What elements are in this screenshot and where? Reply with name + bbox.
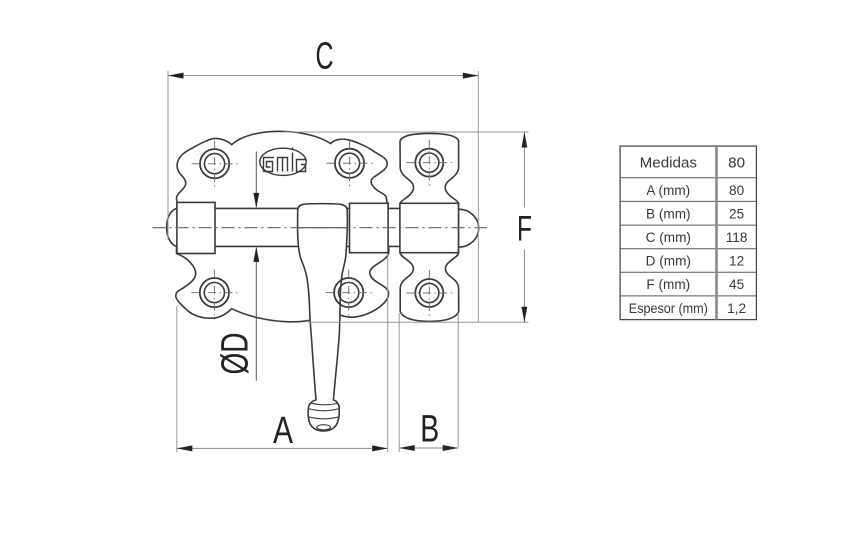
dimension C line: [168, 75, 478, 77]
svg-text:F: F: [517, 209, 532, 248]
svg-text:B: B: [420, 409, 439, 451]
bolt left cap: [167, 208, 178, 246]
handle: [298, 204, 348, 431]
svg-text:80: 80: [729, 183, 745, 198]
screw hole BR: [334, 278, 363, 307]
svg-text:D (mm): D (mm): [646, 254, 691, 269]
svg-text:Espesor (mm): Espesor (mm): [629, 301, 708, 316]
dimension B extension lines: [398, 313, 400, 452]
measurements table: [620, 146, 756, 320]
keeper hole top: [415, 149, 443, 177]
bolt right cap: [459, 209, 479, 247]
svg-text:ØD: ØD: [215, 333, 257, 375]
svg-text:80: 80: [728, 154, 745, 171]
bolt axis centerline: [153, 227, 488, 229]
keeper plate (right): [400, 133, 459, 321]
dimension A line: [177, 447, 388, 449]
centerline segment across handle: [298, 227, 347, 229]
screw hole TR: [335, 149, 364, 178]
screw hole TL: [200, 149, 229, 178]
table grid: [620, 146, 756, 320]
dimension B line: [399, 447, 458, 449]
dimension C extension lines: [167, 71, 169, 240]
screw hole BL: [200, 278, 229, 307]
dimension F extension lines: [283, 131, 529, 133]
svg-text:F (mm): F (mm): [646, 277, 690, 292]
dimension A extension lines: [176, 306, 178, 452]
guide block right: [350, 203, 389, 252]
keeper strap block: [400, 203, 459, 252]
knob detail lines: [311, 403, 338, 405]
svg-text:A: A: [273, 410, 294, 452]
svg-text:12: 12: [729, 254, 744, 269]
svg-text:25: 25: [729, 206, 744, 221]
dimension D leader lines and arrows: [255, 152, 257, 207]
keeper hole bottom: [415, 279, 443, 307]
svg-text:118: 118: [726, 230, 748, 245]
svg-text:B (mm): B (mm): [646, 206, 691, 221]
dimension F line: [523, 132, 525, 208]
svg-text:C: C: [316, 36, 334, 78]
svg-text:Medidas: Medidas: [640, 154, 698, 171]
hole center crosses: [191, 140, 452, 316]
guide block left: [177, 202, 215, 253]
svg-text:C (mm): C (mm): [646, 230, 691, 245]
amig logo: [260, 148, 306, 176]
table text: [629, 154, 748, 315]
svg-text:45: 45: [729, 277, 744, 292]
svg-text:A (mm): A (mm): [646, 183, 690, 198]
bolt bar: [177, 208, 459, 246]
main plate (latch body): [176, 131, 389, 322]
svg-text:1,2: 1,2: [727, 301, 746, 316]
